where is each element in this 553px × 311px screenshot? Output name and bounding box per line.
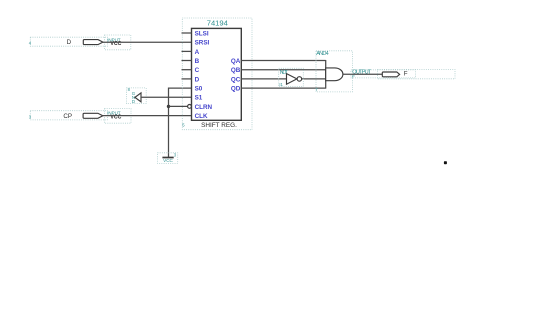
svg-text:S0: S0: [195, 86, 203, 93]
NOT gate dashed box: [279, 68, 304, 86]
wire QA->AND: [241, 60, 325, 62]
svg-text:QB: QB: [231, 67, 241, 74]
ground label GND (vertical): [132, 91, 136, 104]
svg-text:C: C: [195, 67, 200, 74]
wire AND->port F: [343, 73, 383, 75]
wire QB->AND: [241, 69, 325, 71]
U1 74194 body: [192, 28, 242, 120]
net label box (VCC on CP wire): [105, 109, 132, 124]
port F dashed selection box: [378, 69, 456, 78]
wire QD->AND: [241, 87, 325, 89]
svg-text:D: D: [132, 99, 135, 104]
svg-text:B: B: [195, 58, 200, 65]
ground symbol triangle: [135, 93, 141, 102]
pin stub C: [182, 69, 192, 71]
VCC rail symbol dashed box: [158, 153, 178, 164]
input port D: [83, 40, 103, 45]
svg-text:SLSI: SLSI: [195, 30, 209, 37]
inverter U2 triangle: [287, 74, 297, 85]
svg-text:CLK: CLK: [195, 113, 208, 120]
AND gate input bar: [325, 60, 327, 89]
net label box (VCC on D wire): [105, 35, 131, 50]
svg-text:SHIFT REG.: SHIFT REG.: [201, 122, 237, 129]
OUTPUT net label dashed box: [351, 70, 416, 78]
pin labels left: [195, 30, 213, 120]
wire D->SRSI: [103, 41, 192, 43]
pin stub A: [182, 50, 192, 52]
svg-text:F: F: [404, 70, 408, 77]
wire NOT->AND: [302, 78, 326, 80]
AND4 dashed box: [316, 51, 353, 92]
VCC rail bar: [162, 157, 173, 159]
CLRN bubble: [188, 105, 192, 109]
svg-text:VCC: VCC: [163, 158, 173, 163]
wire S0 from vertical rail: [169, 88, 192, 157]
output port F: [382, 72, 399, 77]
pin stub SLSI: [182, 32, 192, 34]
input port CP: [83, 113, 103, 118]
AND gate U3 body: [326, 68, 343, 81]
svg-text:F: F: [352, 74, 355, 79]
svg-text:QA: QA: [231, 58, 241, 65]
svg-text:S1: S1: [195, 95, 203, 102]
svg-text:D: D: [195, 76, 200, 83]
svg-text:SRSI: SRSI: [195, 40, 210, 47]
svg-text:AND4: AND4: [316, 51, 329, 57]
node junction on CLRN branch: [167, 105, 170, 108]
wire GND->S1: [141, 96, 192, 98]
74194 dashed selection box: [182, 18, 252, 130]
svg-text:CLRN: CLRN: [195, 104, 213, 111]
svg-text:QC: QC: [231, 76, 241, 83]
stray cursor dot: [444, 161, 447, 164]
wire junction->CLRN bubble: [169, 105, 188, 107]
pin stub D: [182, 78, 192, 80]
svg-text:OUTPUT: OUTPUT: [352, 69, 372, 75]
pin labels right: [231, 58, 241, 93]
inverter bubble: [297, 77, 302, 82]
port CP dashed selection box: [30, 111, 107, 120]
svg-text:A: A: [195, 49, 200, 56]
svg-text:D: D: [67, 39, 72, 46]
svg-text:74194: 74194: [207, 19, 228, 28]
svg-text:QD: QD: [231, 86, 241, 93]
wire CP->CLK: [103, 115, 192, 117]
port D dashed selection box: [30, 37, 107, 46]
pin stub B: [182, 60, 192, 62]
ground symbol dashed box: [127, 88, 147, 104]
wire QC->NOT: [241, 78, 286, 80]
svg-text:CP: CP: [63, 113, 72, 120]
